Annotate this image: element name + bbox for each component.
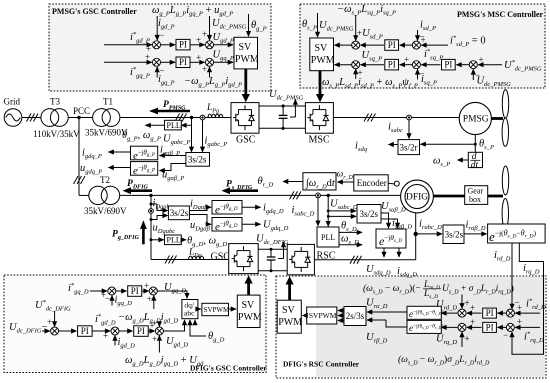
svg-text:+: +: [147, 294, 152, 304]
svg-text:T3: T3: [50, 97, 60, 107]
PLL output arrow left: [146, 124, 165, 126]
block SV PWM (DFIG GSC): [237, 295, 260, 327]
wire Jc to SVPWM row2: [335, 64, 353, 66]
omega_s_P output arrow: [458, 159, 469, 161]
outputs U_sdq i_sdq down: [383, 248, 385, 257]
svg-text:110kV/35kV: 110kV/35kV: [33, 129, 80, 139]
formula2 wire up into Jy: [461, 332, 463, 347]
svg-text:PI: PI: [81, 326, 89, 336]
wire JC to PIB: [58, 330, 76, 332]
svg-text:PCC: PCC: [73, 106, 90, 116]
thick PWM arrow down to MSC: [316, 94, 324, 102]
block e^-j theta (u): [131, 162, 158, 176]
svg-text:PMSG's GSC Controller: PMSG's GSC Controller: [52, 7, 137, 16]
block PI2: [176, 57, 190, 68]
svg-text:SV: SV: [242, 300, 256, 311]
junction JA: [108, 287, 116, 295]
i_gq_P feedback up into J3: [156, 67, 158, 78]
encoder ring on DFIG: [388, 183, 399, 184]
svg-text:MSC: MSC: [309, 135, 330, 146]
dc link rails PMSG: [259, 105, 305, 107]
block PI C: [134, 326, 149, 337]
block PI1: [176, 39, 190, 50]
svg-text:PI: PI: [486, 322, 494, 332]
junction Jd: [412, 61, 420, 69]
compensation up into Jc: [355, 69, 357, 79]
svg-text:SVPWM: SVPWM: [204, 306, 230, 314]
integrator output theta_r_D: [283, 181, 303, 183]
formula1 wire down into Jx: [461, 295, 463, 309]
svg-text:PWM: PWM: [311, 55, 335, 66]
wire grid to T3: [22, 117, 41, 119]
machine DFIG: [401, 180, 434, 213]
svg-text:SV: SV: [315, 43, 329, 54]
wire i_sabc down to 3s/2r: [408, 120, 410, 139]
svg-text:35kV/690V: 35kV/690V: [84, 206, 127, 216]
svg-text:−: −: [503, 330, 508, 340]
wire into SV PWM top: [317, 13, 319, 37]
compensation up into JE: [158, 336, 160, 353]
capacitor C dc DFIG: [270, 249, 272, 257]
U_dc_DFIG measurement arrow: [278, 258, 284, 260]
wire JE to dq/abc: [163, 320, 185, 331]
wires 2s/3s to SVPWM: [338, 310, 344, 312]
i_sdq output arrow: [389, 144, 399, 146]
svg-text:T2: T2: [100, 175, 110, 185]
output u_gdq_P: [109, 167, 131, 169]
output i_gdq_P: [109, 151, 131, 153]
shaft PMSG: [491, 117, 503, 120]
rotor wire RSC to DFIG: [314, 259, 415, 261]
svg-text:PI: PI: [388, 40, 396, 50]
compensation up into J4: [209, 67, 211, 78]
transformer T2: [89, 186, 107, 204]
current sensor ring i_sabc: [407, 115, 412, 120]
three-phase slashes GSC branch: [165, 256, 177, 264]
svg-text:T1: T1: [103, 97, 113, 107]
block PI (MSC row2): [385, 59, 399, 70]
wire 3s/2s to e-box i: [160, 155, 186, 157]
svg-text:+: +: [465, 298, 470, 308]
junction JE: [155, 327, 163, 335]
junction JD: [111, 327, 119, 335]
svg-text:PI: PI: [444, 60, 452, 70]
node U_sabc tap: [327, 194, 330, 197]
outputs i_gdq_D U_gdq_D: [242, 206, 261, 208]
svg-text:PLL: PLL: [321, 233, 335, 242]
current sensor ring i_sabc_D: [316, 193, 321, 198]
wire PI to Ja: [361, 44, 385, 46]
svg-text:+: +: [517, 317, 522, 327]
wire encoder to integrator: [338, 181, 354, 183]
svg-text:3s/2s: 3s/2s: [360, 209, 379, 219]
taps to stator 3s/2s: [327, 210, 330, 213]
svg-text:dt: dt: [471, 160, 479, 170]
converter MSC: [305, 103, 333, 134]
svg-text:PI: PI: [179, 40, 187, 50]
current sensor ring: [200, 115, 205, 120]
junction JB: [149, 287, 157, 295]
box DFIG RSC controller: [276, 276, 546, 378]
block e^-j theta_gD (i): [212, 201, 242, 215]
wire Jx to e-box a: [441, 312, 458, 314]
wire PI3 to Jd: [421, 64, 440, 66]
PLL output labels: [181, 239, 186, 241]
wire SVPWM to SV PWM: [229, 308, 237, 310]
node i_rabc tap: [414, 232, 418, 236]
svg-text:+: +: [196, 53, 201, 63]
svg-text:+: +: [103, 331, 108, 341]
block 3s/2s (DFIG grid): [168, 206, 189, 220]
block SVPWM (RSC): [307, 307, 337, 324]
wire 3s/2s to e-box u: [160, 164, 186, 171]
wire PIA to JB: [142, 290, 149, 292]
junction J2: [206, 41, 214, 49]
svg-text:SV: SV: [239, 42, 253, 53]
wire PIB to JD: [92, 330, 110, 332]
block e^-j(ts-tr) a: [407, 306, 441, 319]
wire J3 to PI2: [160, 61, 175, 63]
svg-text:SV: SV: [282, 305, 296, 316]
svg-text:Encoder: Encoder: [357, 178, 387, 188]
wire Jd to PI: [400, 64, 413, 66]
svg-text:box: box: [469, 195, 481, 204]
wire MSC to PMSG: [333, 117, 459, 119]
gray inner region of RSC controller: [316, 277, 545, 377]
block Encoder: [354, 175, 388, 191]
current ring on branch: [149, 209, 154, 214]
block e^-j(theta_s-theta_r): [488, 224, 545, 243]
svg-text:PI: PI: [131, 286, 139, 296]
wire PI1 to J2: [190, 44, 205, 46]
converter GSC (DFIG): [229, 244, 259, 274]
svg-text:+: +: [202, 29, 207, 39]
svg-text:3s/2s: 3s/2s: [188, 155, 207, 165]
thick PWM arrow up to GSC: [245, 275, 253, 283]
wire ring down to 3s/2s (i_gabc): [202, 120, 204, 152]
wire i_gd_P down to J1: [156, 16, 158, 40]
wire node down to PLL and 3s/2s (u_gabc): [191, 118, 193, 152]
gear box: [465, 186, 488, 205]
junction J4: [206, 58, 214, 66]
svg-text:PLL: PLL: [167, 236, 181, 245]
transformer T3: [41, 109, 59, 127]
wire JB to dq/abc: [157, 291, 187, 298]
U_dc_PMSG feedback up into Je: [472, 69, 474, 80]
block SV PWM (RSC): [277, 300, 301, 333]
svg-text:+: +: [144, 281, 149, 291]
i_gq_D feedback up into JA: [111, 296, 113, 306]
wire ring down to PLL (i_sabc_D): [317, 198, 319, 226]
i_gd_D feedback up into JD: [114, 336, 116, 346]
svg-text:PWM: PWM: [235, 54, 259, 65]
junction Je: [469, 61, 477, 69]
svg-text:Grid: Grid: [4, 97, 21, 107]
block PI (MSC row2 outer): [442, 59, 456, 70]
svg-text:+: +: [404, 55, 409, 65]
svg-text:PI: PI: [179, 57, 187, 67]
svg-text:PI: PI: [388, 60, 396, 70]
shaft DFIG to gearbox: [433, 195, 464, 198]
compensation down into JE: [158, 322, 160, 327]
svg-text:3s/2r: 3s/2r: [400, 143, 418, 153]
block 3s/2s (stator): [357, 205, 381, 224]
svg-text:+: +: [470, 317, 475, 327]
svg-text:PMSG's MSC Controller: PMSG's MSC Controller: [457, 10, 544, 19]
svg-text:3s/2s: 3s/2s: [445, 230, 464, 240]
svg-text:+: +: [145, 52, 150, 62]
svg-text:PWM: PWM: [278, 317, 302, 328]
wire JD to PIC: [119, 330, 133, 332]
block 3s/2s (PMSG): [186, 153, 210, 167]
block SVPWM (DFIG GSC): [202, 303, 229, 315]
wire J4 to SVPWM: [213, 61, 233, 63]
wire T1 to GSC: [120, 117, 231, 119]
wire PI to Jy: [467, 326, 482, 328]
node branch to GSC: [149, 194, 152, 197]
block SV PWM (PMSG MSC): [310, 38, 334, 71]
junction J2r: [506, 323, 514, 331]
thick PWM arrow down to GSC: [242, 94, 250, 102]
three-phase slashes MSC-PMSG: [364, 114, 376, 122]
svg-text:PWM: PWM: [238, 312, 262, 323]
i_sq_P feedback up into Jd: [417, 69, 419, 79]
compensation up into JB: [153, 296, 155, 310]
wire U*dc down into JC: [54, 311, 56, 327]
svg-text:+: +: [465, 334, 470, 344]
block PI (RSC row1): [483, 308, 497, 318]
junction Jy: [458, 323, 466, 331]
block PI A: [128, 286, 142, 297]
wire J1 to PI1: [160, 44, 175, 46]
svg-text:−: −: [160, 30, 165, 40]
transformer T1: [93, 109, 111, 127]
three-phase slashes grid line: [27, 114, 39, 122]
box PMSG MSC controller: [300, 4, 545, 88]
block e^-j theta (i): [131, 146, 158, 160]
wire T3 to T1: [68, 117, 92, 119]
U_dc_PMSG measurement arrow: [290, 116, 295, 118]
wire Ja to SVPWM row1: [335, 44, 353, 46]
thick PWM arrow up to RSC: [286, 276, 294, 284]
turbine blades PMSG: [502, 90, 508, 118]
capacitor C dc PMSG: [282, 106, 284, 115]
junction J3: [153, 58, 161, 66]
theta_s_P tap from PMSG bottom: [474, 135, 476, 153]
three-phase slashes on stator wire: [290, 191, 302, 199]
svg-text:2s/3s: 2s/3s: [346, 311, 365, 321]
block PLL (DFIG grid): [165, 235, 182, 245]
wire Je to PI3: [456, 64, 469, 66]
wire J2 to SVPWM: [213, 44, 233, 46]
svg-text:PI: PI: [486, 308, 494, 318]
wire J1 to PI: [498, 312, 506, 314]
block 3s/2r: [398, 140, 420, 155]
node to PLL: [150, 238, 153, 241]
junction J1: [153, 41, 161, 49]
wire T2 to DFIG: [120, 194, 401, 196]
turbine blades DFIG: [502, 166, 508, 195]
svg-text:abc: abc: [184, 309, 195, 318]
three-phase slashes on T1-GSC wire: [175, 114, 187, 122]
vertical branch wire: [150, 195, 152, 259]
svg-text:+: +: [47, 317, 52, 327]
svg-text:PLL: PLL: [167, 121, 181, 130]
wire PI to Jx: [467, 312, 482, 314]
wire e-box a to 2s/3s: [386, 311, 407, 313]
node PCC: [77, 116, 80, 119]
wire Jb to PI: [400, 44, 413, 46]
junction J1r: [506, 309, 514, 317]
wire PI to Jc: [361, 64, 385, 66]
box DFIG GSC controller: [4, 275, 266, 373]
svg-text:+: +: [421, 35, 426, 45]
svg-text:+: +: [479, 55, 484, 65]
svg-text:GSC: GSC: [236, 135, 256, 146]
block e^-j theta_gD (u): [212, 218, 242, 232]
svg-text:+: +: [470, 303, 475, 313]
block 2s/3s: [344, 307, 366, 326]
i_rq_D feedback wire: [512, 243, 544, 354]
grid source G: [4, 109, 22, 127]
svg-text:+: +: [152, 318, 157, 328]
svg-text:PMSG: PMSG: [463, 115, 489, 125]
wire U_dc down to J2: [209, 16, 211, 40]
svg-text:+: +: [196, 35, 201, 45]
block dq/abc: [182, 300, 198, 319]
i_rd_D feedback wire: [511, 243, 513, 309]
junction Jb: [412, 41, 420, 49]
block e^-j(ts-tr) b: [407, 320, 441, 333]
converter GSC (PMSG): [231, 103, 259, 134]
svg-text:+: +: [517, 303, 522, 313]
svg-text:+: +: [152, 334, 157, 344]
wire dq/abc to SVPWM: [198, 308, 201, 310]
block integrator: [303, 173, 336, 190]
wire SVPWM to SV PWM: [303, 315, 307, 317]
taps to 3s/2s: [150, 203, 153, 206]
block PI B: [78, 326, 93, 337]
block e^-j theta_s_D: [376, 229, 406, 248]
svg-text:+: +: [358, 68, 363, 78]
junction Jc: [352, 61, 360, 69]
block 3s/2s (rotor): [443, 225, 464, 244]
wire JA to PIA: [115, 290, 126, 292]
wire J2 to PI: [498, 326, 506, 328]
machine PMSG: [459, 102, 491, 134]
svg-text:DFIG's RSC Controller: DFIG's RSC Controller: [283, 360, 360, 369]
svg-text:(ωs_D − ωr_D)(−: (ωs_D − ωr_D)(−: [363, 283, 421, 296]
wire node down (U_sabc_D): [327, 195, 329, 226]
compensation down into Ja: [355, 15, 357, 41]
wire e-box b to 2s/3s: [386, 320, 407, 327]
block PI (MSC row1): [385, 40, 399, 51]
box PMSG GSC controller: [49, 4, 271, 91]
junction JC: [51, 327, 59, 335]
wire PIC to JE: [148, 330, 155, 332]
block SV PWM (PMSG GSC): [234, 37, 258, 69]
svg-text:+: +: [202, 64, 207, 74]
block d/dt: [468, 152, 482, 167]
junction Ja: [352, 41, 360, 49]
block PLL (PMSG): [165, 120, 182, 130]
svg-text:SVPWM: SVPWM: [309, 311, 337, 320]
node for u measurement: [190, 116, 193, 119]
svg-text:PI: PI: [137, 326, 145, 336]
block PLL (stator): [317, 227, 339, 247]
svg-text:DFIG: DFIG: [406, 193, 428, 203]
svg-text:−: −: [105, 294, 110, 304]
svg-text:3s/2s: 3s/2s: [170, 208, 189, 218]
dc link rails DFIG: [258, 248, 287, 250]
wire Jy to e-box b: [441, 326, 458, 328]
block PI (RSC row2): [483, 322, 497, 332]
wire PCC down to T2: [78, 118, 80, 196]
shaft gearbox to blades: [488, 195, 503, 198]
converter RSC: [287, 244, 314, 274]
svg-text:GSC: GSC: [211, 252, 231, 263]
wire PI2 to J4: [190, 61, 205, 63]
junction Jx: [458, 309, 466, 317]
